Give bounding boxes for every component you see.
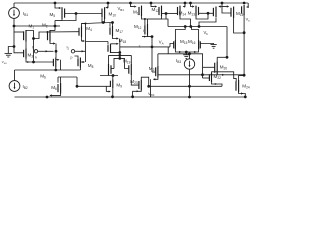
transistor M4 [79, 27, 82, 38]
transistor M10 [102, 7, 105, 19]
svg-text:I+: I+ [143, 29, 146, 34]
transistor M13 arrow [155, 6, 157, 8]
transistor M8a [78, 58, 80, 68]
wire M4 drain elbow [82, 24, 87, 27]
transistor M20top [242, 5, 245, 15]
node dot rail M20 [243, 2, 246, 5]
label M23b [130, 79, 138, 85]
label n [35, 56, 37, 60]
label M3 [28, 53, 34, 59]
label I2 [67, 45, 70, 50]
node dot IB3 y86 [188, 85, 191, 88]
transistor M12 [145, 24, 148, 36]
wire M9 drain riser [112, 76, 114, 80]
node dot out mid [243, 74, 246, 77]
label M11 [133, 9, 140, 15]
transistor M15 arrow [192, 5, 194, 7]
wire M18L source [108, 74, 110, 77]
wire to ground [8, 47, 14, 54]
current arrow M20 src [222, 74, 224, 76]
transistor M2 source arrow [53, 42, 55, 44]
node dot y26c [198, 25, 201, 28]
wire M8a gate hook [75, 56, 79, 59]
node p terminal [71, 50, 74, 53]
node dot x202 [201, 73, 204, 76]
label VB1 [118, 6, 125, 12]
wire p input [75, 50, 86, 52]
wire M22 source [212, 82, 223, 86]
wire M17 drain riser [112, 23, 114, 27]
label M7 [40, 74, 46, 80]
node dot M5 diode [75, 12, 78, 15]
transistor M3 [24, 49, 26, 59]
wire IB3 top stem [189, 54, 191, 59]
wire IB1 top stem [13, 3, 15, 8]
wire M16L gate [170, 44, 174, 47]
transistor M11 [139, 6, 142, 17]
node dot mid gnd [185, 51, 188, 54]
node dot out foot [244, 96, 247, 99]
transistor M20top arrow [246, 6, 248, 8]
wire M7 source [55, 68, 57, 71]
node dot out gate [243, 31, 246, 34]
transistor M9b [108, 44, 111, 53]
label M19 [123, 59, 131, 65]
wire M9 source [112, 88, 114, 97]
transistor M21a arrow [153, 78, 155, 80]
label VSS2 [2, 60, 7, 65]
node dot bias [54, 25, 57, 28]
wire VSS bottom rail [15, 96, 246, 98]
wire source row y74 [158, 74, 244, 76]
label M1 [29, 24, 35, 30]
node dot M1 drain [32, 37, 35, 40]
wire M17 gate riser [109, 23, 111, 27]
wire M16R source [186, 50, 198, 52]
label M2 [42, 23, 48, 29]
wire y75 row [100, 75, 118, 77]
node dot n [55, 50, 58, 53]
label M4 [86, 26, 92, 32]
node dot M23b src [131, 95, 134, 98]
wire z to bias link [167, 47, 169, 54]
label M16top [236, 11, 244, 17]
transistor M18top [213, 7, 216, 18]
transistor M3 arrow [27, 61, 29, 63]
wire M1M2 gate link [34, 32, 80, 39]
wire VDD top rail [14, 2, 248, 4]
wire M21a gate [152, 71, 156, 73]
wire M3 gate lead [14, 47, 24, 53]
wire tail row [15, 69, 81, 71]
wire IB2 stem [14, 70, 16, 81]
node dot IB3 foot [188, 96, 191, 99]
wire z net [120, 46, 170, 48]
label M12 [134, 24, 142, 30]
wire M4 source elbow [82, 37, 85, 41]
transistor M14 arrow [183, 5, 185, 7]
wire M8a source [79, 68, 81, 71]
label M24 [242, 83, 250, 89]
wire M16L drain [175, 27, 185, 41]
wire M10 gate riser [101, 18, 103, 23]
wire M7 drain stub [56, 59, 58, 61]
wire M16top drain [234, 18, 245, 33]
wire M21a source elbow [154, 78, 158, 80]
node dot M15 diode [207, 12, 210, 15]
wire M18top drain [199, 18, 216, 27]
wire bias row [14, 25, 60, 27]
wire M6 source elbow [50, 94, 61, 96]
transistor M14 [178, 6, 181, 17]
wire M5 gate net [65, 13, 102, 15]
wire n input [38, 50, 54, 52]
wire M18L drain riser [108, 55, 110, 64]
wire M20 gate lead [203, 66, 215, 68]
transistor M18L [109, 64, 112, 75]
node dot rail M5 [54, 2, 57, 5]
wire M5 source [55, 3, 59, 8]
transistor M23b arrow [137, 90, 139, 92]
wire M8a drain stub [80, 61, 83, 63]
wire M19 drain riser [130, 55, 132, 64]
transistor M13 [159, 6, 162, 17]
node dot x152 [151, 35, 154, 38]
wire M18top source [219, 3, 222, 7]
wire M23b drain [141, 77, 148, 86]
ground left [5, 53, 13, 57]
wire M9b drain elbow [111, 43, 117, 45]
wire M21a drain [157, 54, 159, 66]
label M9 [116, 83, 122, 89]
wire M5 bias drop [55, 21, 62, 31]
node dot M2 gate [47, 31, 49, 33]
node dot spine [13, 45, 16, 48]
current arrow M9b [116, 43, 118, 45]
node dot rail M14 [184, 2, 187, 5]
wire M12 drain riser [147, 19, 149, 24]
node dot rail 222 [221, 2, 224, 5]
wire y26 row right [168, 26, 227, 28]
node dot M7 source [54, 69, 57, 72]
node dot M9 source [111, 95, 114, 98]
wire M7 stub riser [60, 60, 62, 70]
wire mid gnd drop [185, 52, 187, 55]
wire M13 source [151, 3, 155, 7]
wire M15 drain diode [196, 13, 208, 19]
node dot y22 [102, 21, 105, 24]
wire M6 diode row [58, 76, 77, 78]
wire M1 source down [25, 42, 27, 49]
wire x227 drop [226, 27, 228, 58]
current arrow M16R src [194, 51, 196, 53]
label M16L [180, 39, 188, 45]
node dot rail M11 [129, 2, 132, 5]
node dot x227 [226, 56, 229, 59]
transistor M16top arrow [227, 5, 229, 7]
wire M10 source [107, 3, 108, 8]
wire M15 gate row [199, 12, 214, 14]
wire IB3 bottom stem [189, 69, 191, 97]
transistor M19 [129, 64, 132, 75]
current source IB1 [9, 8, 20, 19]
current arrow I2 [82, 50, 84, 52]
wire y62 row [34, 61, 54, 63]
wire M16top source [222, 6, 227, 8]
wire y86 row right [149, 85, 222, 87]
label M6 [51, 85, 57, 91]
wire y54 row [158, 53, 203, 55]
current arrow M16L src [179, 51, 181, 53]
wire M14 drain [180, 16, 191, 26]
node dot z x152 [151, 46, 154, 49]
wire y22 row [82, 23, 113, 24]
node dot spine top [85, 23, 87, 25]
wire M17 source elbow [113, 36, 118, 39]
node dot IB1 foot [13, 25, 16, 28]
transistor M22 arrow [215, 83, 217, 85]
wire M22 gate feed [203, 75, 210, 78]
wire IB1 bottom stem [13, 18, 15, 26]
wire M9b gate hook [107, 42, 109, 45]
label M22 [214, 74, 222, 80]
node dot IB3 top [188, 52, 191, 55]
wire M11 source [131, 3, 135, 7]
wire z spine [119, 39, 121, 59]
wire M2 drain elbow [50, 30, 55, 32]
wire M12 source elbow [148, 35, 153, 38]
label IB2 [23, 84, 28, 90]
node dot rail M15 [189, 2, 192, 5]
wire M19 source [131, 75, 139, 85]
transistor M20 [215, 61, 218, 74]
wire M23b source [133, 90, 142, 97]
label Vb [204, 30, 209, 36]
label M15 [188, 11, 196, 17]
wire bias spine [13, 26, 15, 47]
node dot M17 drain [111, 21, 114, 24]
wire M13 drain elbow [162, 14, 167, 20]
label z [139, 44, 141, 48]
wire M9b source elbow [111, 52, 120, 54]
svg-text:z: z [139, 44, 141, 48]
node dot rail M10 [107, 2, 110, 5]
wire M22 drain [212, 72, 237, 82]
wire M6 drain riser [60, 77, 62, 83]
node dot M12 gate [144, 18, 146, 20]
wire M24 source elbow [239, 92, 246, 97]
label VSS [148, 91, 154, 97]
wire x152 drop [151, 37, 153, 72]
transistor M22 [209, 73, 211, 82]
label Vo [246, 18, 251, 23]
node dot z2 [118, 54, 121, 57]
label I1 [32, 45, 35, 50]
label M5 [50, 12, 56, 18]
wire y86 riser [76, 77, 78, 86]
label IB1 [23, 11, 28, 17]
label p [71, 56, 73, 60]
wire output net [243, 33, 245, 76]
label M18L [88, 63, 94, 69]
wire M20top drain [243, 15, 245, 33]
label M9b [119, 38, 127, 44]
transistor M16L [174, 40, 176, 50]
wire M21a src drop [150, 79, 152, 97]
wire M16R drain [192, 27, 199, 41]
wire M13 gate net [162, 12, 178, 14]
wire M20 gate drop [202, 54, 204, 75]
transistor M5 source arrow [59, 7, 61, 9]
wire M3 source [26, 59, 34, 63]
wire M10 drain riser [104, 19, 106, 23]
wire M20top source [247, 3, 249, 7]
label Iplus [143, 29, 146, 34]
ground mid [183, 55, 189, 59]
transistor M11 arrow [134, 6, 136, 8]
node dot y86 [76, 85, 79, 88]
node dot y86b [147, 85, 150, 88]
current source IB3 [184, 59, 194, 69]
transistor M18top arrow [218, 5, 220, 7]
node dot rail M13 [150, 2, 153, 5]
transistor M17 [110, 26, 113, 36]
label M20 [220, 64, 228, 70]
node dot y62 [32, 61, 35, 64]
node dot z1 [118, 51, 121, 54]
wire M9 arrow stub [106, 86, 109, 91]
transistor M7 [53, 58, 55, 68]
wire M12 gate riser [144, 19, 146, 25]
wire y26 riser [166, 19, 168, 27]
label M14 [179, 11, 187, 17]
transistor M6 source arrow [49, 94, 51, 96]
wire y19 link [148, 18, 162, 20]
label VA [159, 40, 164, 46]
wire M16R gate [200, 43, 213, 46]
transistor M9 arrow [109, 91, 111, 93]
transistor M10 source arrow [105, 6, 107, 8]
transistor M16top [231, 7, 234, 19]
node dot z3 [118, 57, 121, 60]
wire M7 drain [55, 51, 57, 57]
wire M1 drain drop [33, 39, 35, 63]
label M10 [109, 12, 117, 18]
wire M6 gate riser [57, 77, 59, 83]
wire M2 source elbow [50, 42, 54, 44]
transistor M5 [62, 7, 65, 19]
wire gate tap M18L [111, 68, 114, 70]
current arrow M8a [83, 61, 85, 63]
wire gate row y58 [114, 58, 129, 68]
wire M1 gate lead [14, 31, 24, 33]
svg-text:n: n [35, 56, 37, 60]
wire M5 drain loop [62, 14, 76, 21]
transistor M4 source arrow [83, 40, 85, 42]
current arrow M17 [116, 37, 118, 39]
transistor M24 arrow [241, 92, 243, 94]
svg-text:p: p [71, 56, 73, 60]
wire M20 source [216, 73, 218, 76]
node dot y26b [189, 25, 192, 28]
wire M14 source [183, 3, 185, 7]
ground Vb [211, 45, 217, 49]
wire M15 source [191, 3, 193, 7]
wire M1 drain elbow [26, 31, 34, 39]
transistor M16R [199, 40, 201, 50]
label IB3 [176, 58, 181, 64]
wire p-node spine [85, 24, 87, 63]
current source IB2 [9, 81, 20, 92]
wire M16L source [175, 50, 186, 52]
transistor M9 [110, 79, 112, 88]
wire Iplus row [142, 36, 148, 38]
wire M16top gate [222, 7, 231, 14]
wire drain row y55 [109, 54, 132, 56]
transistor M15 [196, 6, 199, 17]
transistor M6 [58, 83, 61, 94]
current arrow I1 [46, 50, 48, 52]
wire M20 drain [216, 57, 218, 61]
label M13 [152, 7, 160, 13]
transistor M2 [48, 30, 51, 42]
node dot M13 diode [165, 12, 168, 15]
wire M24 drain [239, 76, 245, 80]
wire M9 gate row [77, 85, 110, 87]
label M17 [116, 28, 124, 34]
label M16R [188, 39, 196, 45]
transistor M21a [156, 66, 158, 78]
current arrow M7 [57, 59, 59, 61]
node dot y75 [112, 74, 115, 77]
node dot M6 source [46, 96, 49, 99]
transistor M1 [24, 30, 26, 42]
wire M9b gate lead [86, 41, 109, 43]
wire y57 stub [217, 56, 227, 58]
node n terminal [34, 50, 37, 53]
transistor M24 [236, 80, 239, 92]
transistor M23b [139, 80, 141, 91]
label M21a [149, 66, 157, 72]
wire M11 drain elbow [142, 16, 148, 19]
wire M2 to n node [55, 44, 57, 52]
node dot y26a [184, 25, 187, 28]
